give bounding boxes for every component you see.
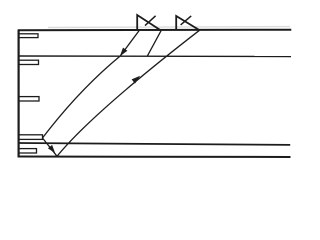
ghost scan artifact above top surface: [48, 26, 290, 29]
tick slash on T1: [145, 16, 156, 26]
wire left edge: [18, 30, 20, 158]
wire incident ray in film: [43, 56, 121, 138]
electrode bar B3: [19, 97, 40, 101]
electrode bar B5: [19, 149, 37, 153]
wire lower boundary L3: [18, 143, 290, 145]
prism symbol T2: [176, 16, 199, 30]
arrowhead A3 to mirror: [48, 145, 55, 153]
electrode bar B1: [19, 34, 39, 38]
wire exit ray stub to T1 apex: [147, 31, 161, 57]
wire ray grating-to-mirror: [43, 138, 58, 156]
wire upper boundary L2: [18, 55, 291, 58]
wire bottom surface L4: [18, 156, 291, 159]
wire top surface L1: [18, 29, 291, 32]
electrode bar B2: [19, 60, 39, 64]
prism symbol T1: [137, 15, 161, 31]
arrowhead A1 incident: [120, 48, 128, 57]
tick slash on T2: [181, 16, 192, 25]
arrowhead A2 reflected: [132, 76, 141, 84]
wire incident ray above L2: [120, 31, 139, 57]
wire reflected ray to T2: [57, 30, 200, 156]
electrode bar B4: [19, 135, 43, 140]
